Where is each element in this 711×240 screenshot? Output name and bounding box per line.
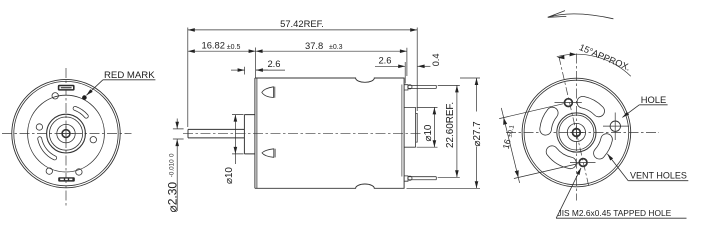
- bottom terminal: [408, 177, 436, 180]
- dimension phi2.30 shaft: [173, 119, 184, 212]
- middle view centerline: [183, 133, 422, 135]
- right view outer circle: [522, 78, 631, 187]
- front bearing boss: [244, 115, 255, 154]
- dimension 2.6 left: [231, 67, 285, 75]
- svg-text:16 ±0.1: 16 ±0.1: [501, 123, 516, 150]
- side vent bottom: [262, 149, 275, 158]
- left view outer circle: [12, 79, 120, 187]
- svg-text:22.60REF.: 22.60REF.: [445, 102, 456, 148]
- right view shaft crosshair: [570, 126, 584, 140]
- svg-text:57.42REF.: 57.42REF.: [280, 18, 324, 29]
- dimension 22.60REF: [438, 85, 460, 177]
- side vent top: [262, 87, 275, 98]
- can front seam: [256, 78, 258, 188]
- svg-text:⌀10: ⌀10: [423, 124, 434, 141]
- dimension 37.8: [256, 50, 407, 52]
- svg-text:37.8: 37.8: [305, 40, 323, 51]
- left view top terminal: [58, 85, 75, 91]
- svg-text:HOLE: HOLE: [641, 94, 667, 105]
- top terminal: [408, 85, 436, 88]
- rear top tab: [404, 85, 408, 90]
- vent slot D lower right: [599, 140, 606, 154]
- plain hole right: [603, 113, 629, 141]
- rear end plate 0.4: [416, 113, 418, 142]
- svg-text:-0.010: -0.010: [169, 159, 176, 177]
- dimension phi10 rear boss: [417, 107, 438, 147]
- left view bottom terminal: [58, 177, 75, 181]
- svg-text:15°APPROX.: 15°APPROX.: [578, 42, 632, 73]
- svg-text:±0.3: ±0.3: [329, 44, 343, 51]
- left view shaft circle: [62, 130, 70, 138]
- angular dimension 15 deg: [557, 54, 631, 76]
- svg-text:⌀10: ⌀10: [224, 167, 235, 184]
- rear seam line: [401, 85, 403, 177]
- svg-text:2.6: 2.6: [378, 55, 391, 66]
- dimension phi27.7: [407, 78, 481, 188]
- left view horizontal centerline: [2, 133, 132, 135]
- right view hub circle outer: [557, 113, 596, 152]
- bottom tapped hole: [570, 159, 596, 167]
- dimension 16 +-0.1: [499, 104, 578, 183]
- right view outer inner circle: [524, 80, 629, 185]
- svg-text:⌀27.7: ⌀27.7: [472, 121, 483, 146]
- svg-text:JIS M2.6x0.45 TAPPED HOLE: JIS M2.6x0.45 TAPPED HOLE: [558, 208, 672, 218]
- left view small holes: [36, 93, 96, 176]
- svg-text:VENT HOLES: VENT HOLES: [630, 170, 687, 180]
- right view horizontal centerline: [506, 132, 659, 134]
- dimension 2.6 right and 0.4: [375, 62, 430, 84]
- left view end-bell circle: [28, 95, 105, 172]
- dimension 16.82: [188, 50, 256, 52]
- svg-text:0.4: 0.4: [431, 54, 441, 67]
- vent slot B left: [546, 113, 553, 129]
- rear bearing boss: [404, 107, 416, 147]
- left view hub circle outer: [47, 114, 86, 153]
- left view vertical centerline: [65, 68, 67, 206]
- svg-text:16.82: 16.82: [202, 40, 225, 51]
- left view hub circle inner: [49, 117, 82, 150]
- can outline with crimp notches: [255, 78, 404, 188]
- left view outer inner circle: [14, 81, 118, 185]
- right view shaft hole: [573, 129, 581, 137]
- vent slot A upper right: [583, 102, 599, 111]
- svg-text:2.6: 2.6: [267, 58, 280, 69]
- dimension phi10 front boss: [232, 115, 244, 164]
- right view hub circle inner: [559, 115, 594, 150]
- 16 dim arrows: [503, 118, 507, 125]
- top tapped hole: [555, 99, 582, 107]
- left view bearing circle: [57, 124, 75, 142]
- right view tilted centerline 15deg: [559, 57, 589, 188]
- svg-text:0: 0: [169, 153, 176, 157]
- right view bearing circle: [567, 123, 585, 141]
- vent slot C bottom left: [552, 152, 571, 163]
- right view vertical centerline: [575, 54, 577, 201]
- RED MARK leader: [86, 80, 103, 96]
- left view shaft crosshair: [59, 126, 74, 141]
- red mark dot: [82, 95, 87, 100]
- svg-text:⌀2.30: ⌀2.30: [166, 182, 180, 213]
- rear bottom tab: [404, 176, 408, 181]
- dimension 57.42REF: [188, 28, 417, 128]
- left view vent slot upper-right: [75, 108, 86, 116]
- mounting flange face: [254, 78, 256, 188]
- svg-text:±0.5: ±0.5: [227, 44, 241, 51]
- left view vent slot lower-left: [40, 139, 55, 158]
- rotation direction arrow: [548, 11, 614, 19]
- shaft: [188, 129, 244, 138]
